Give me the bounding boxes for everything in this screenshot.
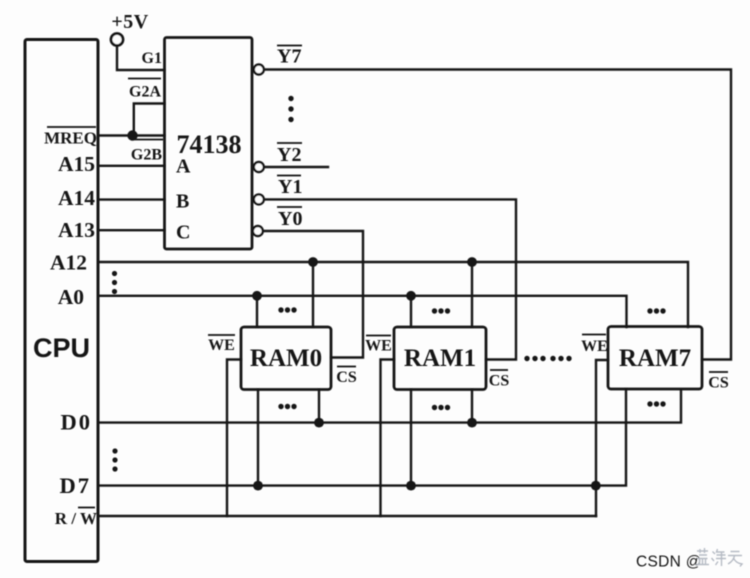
wire RAM1 top A0 drop xyxy=(410,296,412,327)
svg-text:C: C xyxy=(176,222,190,244)
wire A13 to C xyxy=(98,229,165,231)
junction D7/RAM0 xyxy=(253,481,263,491)
wire RAM1 bottom to D7 xyxy=(410,390,412,486)
wire RAM0 top A0 drop xyxy=(256,296,258,327)
svg-text:CS: CS xyxy=(489,373,510,390)
ellipsis RAM7 bottom xyxy=(647,401,652,406)
wire G2A jumper xyxy=(134,104,165,136)
ellipsis D0-D7 vertical xyxy=(112,448,117,453)
ellipsis RAM0 top xyxy=(278,307,283,312)
svg-text:B: B xyxy=(176,191,189,213)
svg-text:CSDN @: CSDN @ xyxy=(636,554,702,571)
wire RAM0 bottom to D7 xyxy=(257,390,259,486)
svg-text:D0: D0 xyxy=(61,410,93,435)
svg-text:R / W: R / W xyxy=(55,509,97,528)
wire MREQ to G2B xyxy=(98,134,165,136)
wire RAM1 WE xyxy=(381,360,395,517)
svg-text:D7: D7 xyxy=(60,473,92,498)
output bubble Y1 xyxy=(254,194,264,204)
svg-text:+5V: +5V xyxy=(111,11,148,33)
svg-text:A14: A14 xyxy=(58,186,95,210)
wire D7 bus xyxy=(98,389,626,486)
svg-text:G2A: G2A xyxy=(129,84,161,101)
svg-text:A15: A15 xyxy=(58,152,95,176)
wire Y2 stub xyxy=(263,166,328,168)
ellipsis RAM1 bottom xyxy=(432,405,437,410)
ellipsis RAM0 bottom xyxy=(278,404,283,409)
wire RAM0 WE xyxy=(227,360,241,517)
svg-text:Y1: Y1 xyxy=(278,176,302,198)
svg-text:CS: CS xyxy=(336,369,357,386)
wire R/W bus xyxy=(98,515,596,517)
ellipsis Y7-Y2 vertical xyxy=(288,96,293,101)
svg-text:G2B: G2B xyxy=(131,147,162,164)
junction A0/RAM1 xyxy=(406,291,416,301)
ellipsis A12-A0 vertical xyxy=(112,271,117,276)
ellipsis RAM7 top xyxy=(647,308,652,313)
svg-text:WE: WE xyxy=(581,338,608,355)
watermark CJK glyph yun xyxy=(728,552,742,567)
junction D0/RAM1 xyxy=(467,418,477,428)
RAM0 box xyxy=(241,327,331,390)
svg-text:RAM1: RAM1 xyxy=(404,345,476,372)
junction D7/RAM7-WE xyxy=(591,481,601,491)
junction A12/RAM0 xyxy=(308,257,318,267)
svg-text:A0: A0 xyxy=(58,285,84,309)
svg-text:G1: G1 xyxy=(142,50,162,67)
wire RAM0 bottom to D0 xyxy=(318,390,320,423)
svg-text:CPU: CPU xyxy=(33,333,90,363)
output bubble Y7 xyxy=(254,65,264,75)
wire RAM0 top A12 drop xyxy=(312,262,314,327)
svg-text:RAM0: RAM0 xyxy=(250,345,322,372)
wire RAM1 bottom to D0 xyxy=(471,390,473,423)
watermark CJK glyph jing xyxy=(712,549,727,566)
RAM1 box xyxy=(394,327,486,390)
wire RAM1 top A12 drop xyxy=(471,262,473,327)
svg-text:A: A xyxy=(176,156,191,178)
wire Y7 to RAM7 CS xyxy=(263,70,731,360)
wire A15 to A xyxy=(98,165,165,167)
watermark CJK glyph lan xyxy=(696,548,709,565)
+5V terminal circle xyxy=(111,34,123,46)
svg-text:Y0: Y0 xyxy=(278,208,302,230)
wire D0 bus xyxy=(98,390,681,423)
svg-text:A13: A13 xyxy=(58,218,95,242)
decoder 74138 box xyxy=(165,38,253,250)
svg-text:MREQ: MREQ xyxy=(44,129,97,148)
svg-text:WE: WE xyxy=(365,338,392,355)
svg-text:Y2: Y2 xyxy=(277,144,301,166)
wire Y1 to RAM1 CS xyxy=(263,199,516,359)
junction D7/RAM1 xyxy=(406,481,416,491)
svg-text:CS: CS xyxy=(708,375,729,392)
CPU U1 box xyxy=(25,40,98,562)
wire Y0 to RAM0 CS xyxy=(263,231,363,358)
ellipsis RAM1 top xyxy=(432,308,437,313)
wire +5V to G1 xyxy=(117,46,165,70)
wire A0 bus xyxy=(98,296,627,327)
svg-text:A12: A12 xyxy=(50,251,87,275)
output bubble Y0 xyxy=(253,226,263,236)
svg-text:Y7: Y7 xyxy=(277,46,301,68)
junction A0/RAM0 xyxy=(252,291,262,301)
svg-text:RAM7: RAM7 xyxy=(619,345,691,372)
junction MREQ/G2A xyxy=(127,130,137,140)
RAM7 box xyxy=(608,327,702,390)
ellipsis RAM1..RAM7 xyxy=(524,356,529,361)
junction D0/RAM0 xyxy=(314,418,324,428)
output bubble Y2 xyxy=(254,162,264,172)
junction A12/RAM1 xyxy=(467,257,477,267)
wire A14 to B xyxy=(98,198,165,200)
svg-text:WE: WE xyxy=(208,337,235,354)
wire RAM7 WE xyxy=(596,360,608,516)
wire A12 bus xyxy=(98,262,688,327)
